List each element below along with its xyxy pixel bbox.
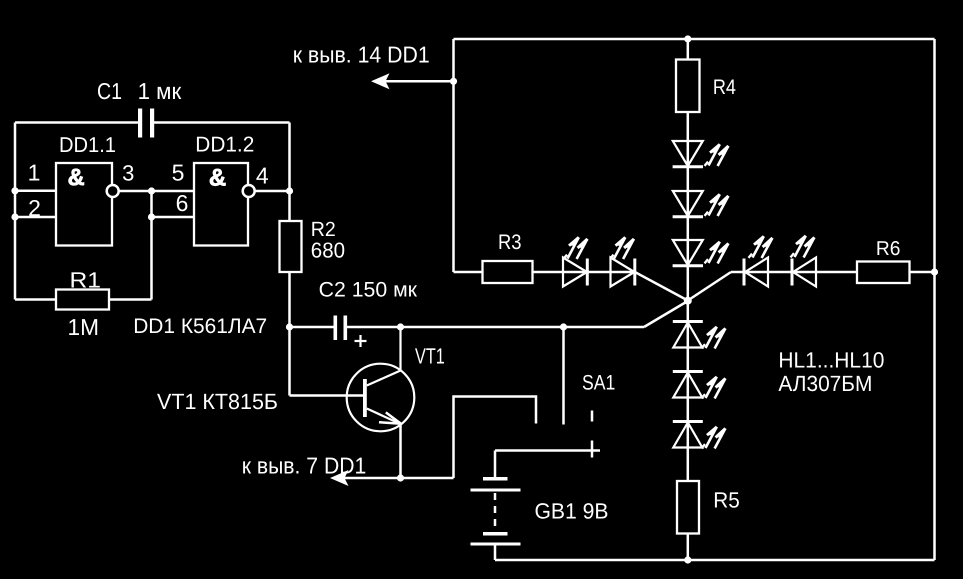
emission arrows HL7	[791, 236, 815, 258]
arrow to pin 7 DD1	[330, 470, 349, 486]
svg-text:1: 1	[28, 159, 41, 185]
svg-text:4: 4	[256, 162, 269, 188]
wire diagonal left to junction	[635, 272, 688, 301]
wire emitter bottom	[345, 477, 454, 480]
node mid output	[148, 187, 155, 194]
wire center top chain	[687, 112, 690, 301]
wire gate2 output	[255, 190, 290, 193]
LED HL3	[673, 240, 703, 266]
svg-text:SA1: SA1	[582, 372, 615, 395]
node SA1 top	[560, 323, 567, 330]
capacitor C2	[334, 316, 348, 341]
wire to R6	[817, 271, 857, 274]
svg-text:к выв. 14 DD1: к выв. 14 DD1	[293, 42, 430, 68]
wire R1 right	[109, 298, 152, 301]
svg-text:к выв. 7 DD1: к выв. 7 DD1	[242, 452, 367, 478]
capacitor C1	[138, 109, 154, 138]
svg-text:C1: C1	[97, 78, 122, 104]
wire right rail	[933, 39, 936, 560]
emission arrows HL4	[564, 237, 588, 259]
resistor R3	[483, 261, 533, 283]
svg-text:&: &	[209, 165, 226, 192]
svg-text:680: 680	[311, 239, 345, 263]
wire left LED loop vertical	[452, 39, 455, 272]
resistor R1	[56, 290, 109, 310]
node pin1 left	[11, 187, 18, 194]
wire top of C1 loop	[15, 121, 290, 124]
wire right LED branch	[731, 271, 817, 274]
node top center	[684, 35, 691, 42]
svg-text:6: 6	[176, 190, 189, 216]
wire C2 right lead	[347, 326, 644, 329]
LED HL1	[673, 141, 703, 167]
node arrow14	[450, 78, 457, 85]
wire R5 bottom lead	[687, 534, 690, 561]
wire arrow14	[386, 80, 454, 83]
wire down to base	[288, 327, 291, 396]
wire pin1 input	[15, 190, 56, 193]
resistor R5	[677, 481, 699, 534]
LED HL9	[673, 372, 703, 398]
wire left vertical	[14, 123, 17, 300]
LED HL2	[673, 191, 703, 217]
wire base horizontal	[290, 394, 364, 397]
emission arrows HL2	[705, 194, 729, 216]
wire C2 left lead	[290, 326, 334, 329]
node collector top	[397, 323, 404, 330]
wire left LED branch	[533, 271, 635, 274]
wire gate1 output	[119, 190, 195, 193]
svg-text:R4: R4	[713, 76, 736, 99]
emission arrows HL5	[610, 237, 634, 259]
emission arrows HL1	[705, 144, 729, 166]
resistor R2	[280, 221, 302, 272]
wire R1 left	[15, 298, 56, 301]
node emitter	[397, 474, 404, 481]
wire pin2 input	[15, 216, 56, 219]
svg-text:GB1 9В: GB1 9В	[535, 499, 609, 524]
svg-text:DD1.2: DD1.2	[195, 132, 254, 156]
logic gate DD1.1	[56, 163, 119, 246]
node bottom R5	[684, 556, 691, 563]
transistor VT1	[347, 327, 415, 478]
svg-text:VT1: VT1	[415, 343, 445, 368]
svg-text:DD1 К561ЛА7: DD1 К561ЛА7	[133, 315, 267, 338]
svg-text:1M: 1M	[68, 314, 100, 340]
LED HL5	[611, 258, 635, 287]
wire R3 left lead	[454, 271, 483, 274]
svg-text:R3: R3	[498, 231, 522, 254]
battery GB1	[471, 477, 521, 560]
wire mid vertical	[150, 191, 153, 300]
wire top rail	[454, 38, 935, 41]
wire right vertical C1 loop	[288, 123, 291, 222]
svg-text:C2 150 мк: C2 150 мк	[319, 279, 418, 302]
node gate2 output	[286, 187, 293, 194]
svg-text:АЛ307БМ: АЛ307БМ	[778, 371, 872, 396]
svg-text:3: 3	[122, 160, 134, 185]
arrow to pin 14 DD1	[371, 73, 390, 89]
LED HL7	[792, 258, 816, 287]
svg-text:DD1.1: DD1.1	[59, 133, 116, 157]
wire R2 to C2 node	[288, 272, 291, 327]
node C2 left	[286, 323, 293, 330]
svg-text:R5: R5	[713, 487, 740, 512]
LED HL10	[673, 422, 703, 448]
logic gate DD1.2	[194, 163, 255, 246]
wire battery top	[495, 451, 600, 479]
wire up to switch	[454, 397, 537, 479]
wire R6 right lead	[910, 271, 935, 274]
LED HL8	[673, 322, 703, 348]
wire pin6 input	[152, 216, 195, 219]
wire bottom rail	[495, 559, 935, 562]
wire center bottom chain	[687, 301, 690, 482]
emission arrows HL3	[705, 242, 729, 264]
svg-text:R1: R1	[70, 268, 102, 293]
node mid pin6	[148, 213, 155, 220]
svg-text:HL1...HL10: HL1...HL10	[778, 348, 884, 373]
svg-text:&: &	[68, 164, 85, 190]
LED HL4	[563, 258, 587, 287]
node right R6	[931, 268, 938, 275]
polarity plus C2	[355, 335, 367, 347]
svg-text:1 мк: 1 мк	[138, 78, 183, 104]
emission arrows HL8	[702, 327, 726, 349]
wire diagonal junction to right	[688, 272, 731, 301]
resistor R6	[857, 262, 910, 284]
emission arrows HL9	[702, 377, 726, 399]
svg-text:R6: R6	[876, 238, 901, 260]
svg-text:2: 2	[28, 195, 41, 221]
resistor R4	[676, 60, 700, 113]
svg-text:5: 5	[172, 160, 185, 186]
wire R4 top lead	[687, 39, 690, 60]
LED HL6	[744, 258, 768, 287]
emission arrows HL10	[702, 427, 726, 449]
emission arrows HL6	[749, 236, 773, 258]
svg-text:VT1 КТ815Б: VT1 КТ815Б	[157, 389, 278, 414]
wire diagonal to LED junction	[644, 301, 688, 327]
node pin2 left	[11, 213, 18, 220]
node LED junction	[684, 297, 692, 305]
switch SA1	[564, 327, 593, 458]
